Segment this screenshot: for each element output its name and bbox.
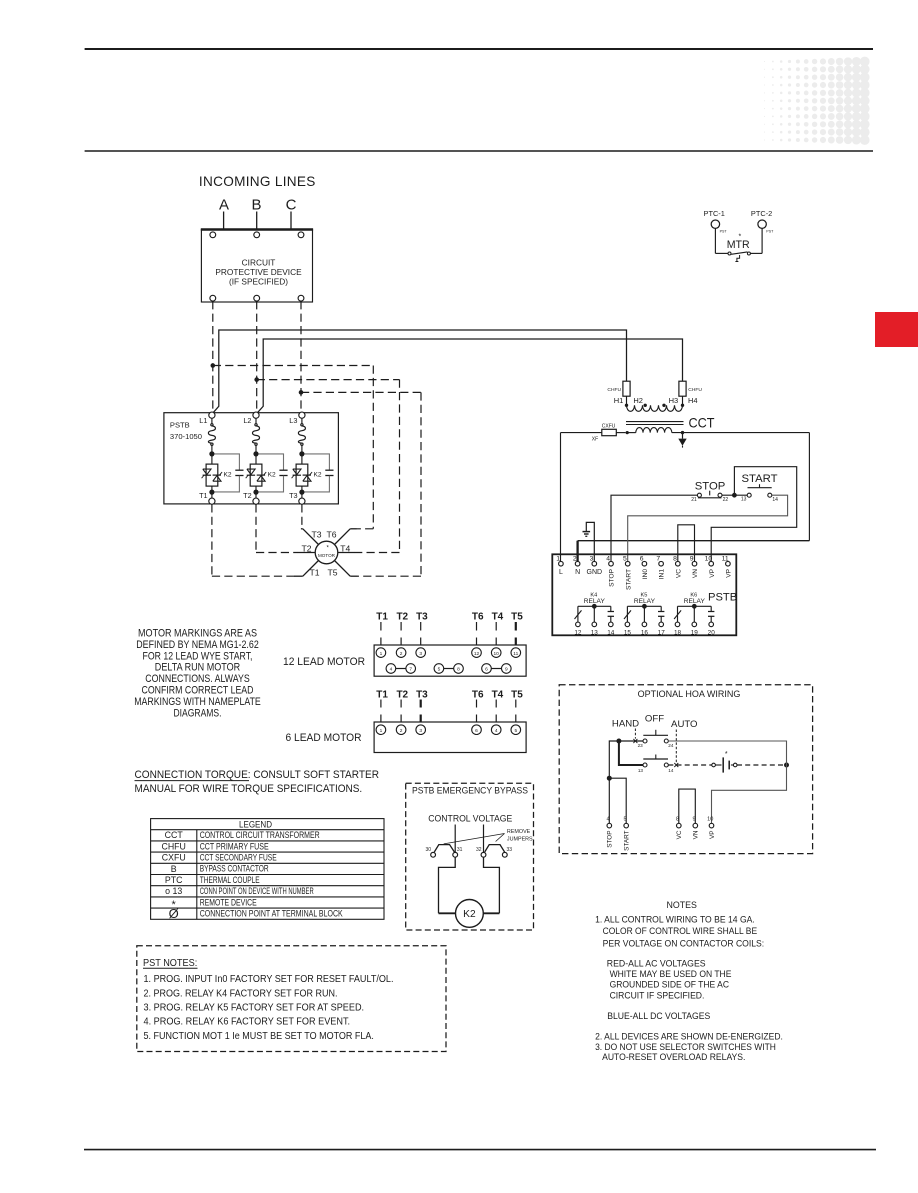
- SCR pair L1: [202, 464, 223, 486]
- svg-text:LEGEND: LEGEND: [239, 820, 272, 831]
- svg-text:STOP: STOP: [607, 831, 614, 848]
- svg-text:4: 4: [606, 555, 610, 562]
- svg-text:H4: H4: [688, 396, 698, 405]
- wire T2 to motor: [255, 504, 257, 552]
- svg-text:VP: VP: [709, 568, 716, 577]
- svg-text:WHITE MAY BE USED ON THE: WHITE MAY BE USED ON THE: [610, 969, 732, 979]
- node L2 junction: [253, 451, 258, 456]
- svg-text:VN: VN: [693, 830, 700, 839]
- svg-text:PER VOLTAGE ON CONTACTOR COILS: PER VOLTAGE ON CONTACTOR COILS:: [603, 938, 765, 948]
- svg-text:10: 10: [705, 555, 713, 562]
- svg-text:20: 20: [708, 629, 716, 636]
- svg-text:2. ALL DEVICES ARE SHOWN DE-EN: 2. ALL DEVICES ARE SHOWN DE-ENERGIZED.: [595, 1032, 783, 1042]
- node HOA right junction: [784, 763, 789, 768]
- svg-text:XF: XF: [592, 437, 598, 443]
- svg-text:T1: T1: [376, 689, 388, 700]
- svg-text:INCOMING LINES: INCOMING LINES: [199, 174, 316, 189]
- svg-text:(IF SPECIFIED): (IF SPECIFIED): [229, 277, 288, 287]
- svg-text:OFF: OFF: [645, 714, 664, 725]
- svg-text:CCT: CCT: [689, 416, 716, 431]
- svg-text:PROTECTIVE DEVICE: PROTECTIVE DEVICE: [215, 267, 302, 277]
- svg-text:12 LEAD MOTOR: 12 LEAD MOTOR: [283, 656, 365, 668]
- svg-text:PST NOTES:: PST NOTES:: [143, 958, 197, 969]
- terminal 6 IN0: [642, 561, 647, 566]
- svg-text:1: 1: [380, 728, 383, 734]
- svg-text:CONN POINT ON DEVICE WITH NUMB: CONN POINT ON DEVICE WITH NUMBER: [200, 886, 314, 896]
- node L3 junction: [299, 451, 304, 456]
- terminal 9 VN: [692, 561, 697, 566]
- svg-text:14: 14: [772, 497, 778, 503]
- svg-text:21: 21: [691, 497, 697, 503]
- thermal couple PTC-1: [704, 209, 728, 253]
- svg-text:31: 31: [457, 847, 463, 853]
- 6 lead motor terminal box: [286, 689, 527, 752]
- svg-text:CCT PRIMARY FUSE: CCT PRIMARY FUSE: [200, 841, 269, 851]
- svg-text:FOR 12 LEAD WYE START,: FOR 12 LEAD WYE START,: [143, 650, 253, 662]
- svg-text:CHFU: CHFU: [688, 387, 702, 393]
- svg-text:8: 8: [673, 555, 677, 562]
- svg-text:13: 13: [638, 768, 644, 773]
- terminal 11 VP: [726, 561, 731, 566]
- svg-text:12: 12: [574, 629, 582, 636]
- svg-text:L1: L1: [199, 416, 207, 425]
- svg-text:DELTA RUN MOTOR: DELTA RUN MOTOR: [155, 662, 240, 674]
- connection torque note: [135, 769, 380, 795]
- selector contact 13-14: [638, 730, 678, 773]
- svg-text:1: 1: [380, 651, 383, 657]
- svg-text:H2: H2: [633, 396, 643, 405]
- svg-text:T5: T5: [511, 611, 523, 622]
- wire phase C dashed drop: [300, 301, 302, 412]
- pushbutton STOP (NC): [691, 481, 728, 503]
- wire phase B dashed drop: [256, 301, 258, 412]
- svg-text:DIAGRAMS.: DIAGRAMS.: [174, 707, 222, 719]
- svg-text:1: 1: [556, 555, 560, 562]
- terminal L3: [299, 412, 305, 418]
- svg-text:7: 7: [656, 555, 660, 562]
- svg-text:6 LEAD MOTOR: 6 LEAD MOTOR: [286, 732, 362, 744]
- wire phase A dashed drop: [212, 301, 214, 412]
- thermal couple PTC-2: [751, 209, 774, 253]
- svg-text:5. FUNCTION MOT 1 Ie MUST BE S: 5. FUNCTION MOT 1 Ie MUST BE SET TO MOTO…: [144, 1031, 374, 1042]
- svg-text:6: 6: [640, 555, 644, 562]
- svg-text:19: 19: [691, 629, 699, 636]
- terminal 3 GND: [592, 561, 597, 566]
- svg-text:H1: H1: [614, 396, 624, 405]
- svg-text:VP: VP: [726, 568, 733, 577]
- contactor coil K2: [439, 857, 500, 927]
- svg-text:K2: K2: [268, 471, 276, 478]
- svg-text:CIRCUIT IF SPECIFIED.: CIRCUIT IF SPECIFIED.: [610, 990, 705, 1000]
- svg-text:11: 11: [513, 651, 518, 657]
- svg-text:CONFIRM CORRECT LEAD: CONFIRM CORRECT LEAD: [142, 685, 254, 697]
- PST notes box: [137, 946, 446, 1052]
- SCR pair L2: [246, 464, 267, 486]
- svg-text:24: 24: [668, 743, 674, 748]
- wire tap A to motor T6: [213, 365, 373, 367]
- terminal 7 IN1: [659, 561, 664, 566]
- svg-text:THERMAL COUPLE: THERMAL COUPLE: [200, 875, 260, 885]
- svg-text:REMOTE DEVICE: REMOTE DEVICE: [200, 897, 257, 907]
- node STOP/START junction: [732, 493, 737, 498]
- SCR pair L3: [292, 464, 313, 486]
- control voltage leads: [454, 825, 456, 853]
- overload/fuse element L2: [255, 418, 257, 423]
- svg-text:COLOR OF CONTROL WIRE SHALL BE: COLOR OF CONTROL WIRE SHALL BE: [603, 926, 758, 936]
- svg-text:6: 6: [485, 667, 488, 673]
- svg-text:T5: T5: [511, 689, 523, 700]
- svg-text:T2: T2: [301, 543, 311, 553]
- svg-text:K2: K2: [314, 471, 322, 478]
- terminal 1 L: [559, 561, 564, 566]
- svg-text:PST: PST: [720, 230, 728, 234]
- svg-text:4. PROG. RELAY K6 FACTORY SET: 4. PROG. RELAY K6 FACTORY SET FOR EVENT.: [144, 1017, 351, 1028]
- overload/fuse element L1: [211, 418, 213, 423]
- svg-text:GROUNDED SIDE OF THE AC: GROUNDED SIDE OF THE AC: [610, 980, 730, 990]
- svg-text:PTC-2: PTC-2: [751, 209, 772, 218]
- pushbutton START (NO): [741, 473, 778, 503]
- svg-text:9: 9: [690, 555, 694, 562]
- fuse CXFU / XF: [561, 423, 636, 442]
- circuit protective device: [201, 230, 313, 303]
- svg-text:BLUE-ALL DC VOLTAGES: BLUE-ALL DC VOLTAGES: [607, 1011, 710, 1021]
- jumper VC-VN: [678, 525, 695, 561]
- svg-text:CCT SECONDARY FUSE: CCT SECONDARY FUSE: [200, 853, 277, 863]
- svg-text:32: 32: [476, 847, 482, 853]
- svg-text:12: 12: [474, 651, 480, 657]
- svg-text:1. ALL CONTROL WIRING TO BE 14: 1. ALL CONTROL WIRING TO BE 14 GA.: [595, 914, 755, 924]
- wire L drop: [560, 433, 562, 562]
- svg-text:CONNECTION POINT AT TERMINAL B: CONNECTION POINT AT TERMINAL BLOCK: [200, 909, 343, 919]
- svg-text:HAND: HAND: [612, 718, 639, 729]
- svg-text:T2: T2: [396, 611, 408, 622]
- svg-text:3: 3: [419, 651, 422, 657]
- svg-text:T2: T2: [396, 689, 408, 700]
- svg-text:10: 10: [707, 816, 713, 822]
- wire lead C: [290, 212, 292, 230]
- svg-text:CXFU: CXFU: [162, 853, 186, 863]
- svg-text:5: 5: [623, 816, 626, 822]
- svg-text:14: 14: [607, 629, 615, 636]
- 12 lead motor terminal box: [283, 611, 526, 676]
- svg-text:B: B: [251, 197, 261, 214]
- relay K6: [674, 592, 715, 636]
- svg-text:T6: T6: [472, 611, 484, 622]
- svg-text:7: 7: [409, 667, 412, 673]
- svg-text:1. PROG. INPUT In0 FACTORY SET: 1. PROG. INPUT In0 FACTORY SET FOR RESET…: [144, 974, 394, 985]
- svg-text:5: 5: [514, 728, 517, 734]
- wire tap C to motor T5: [301, 391, 421, 393]
- terminal T1: [211, 486, 213, 490]
- svg-text:PSTB: PSTB: [170, 420, 190, 429]
- svg-text:3: 3: [419, 728, 422, 734]
- fuse CHFU (right): [679, 381, 702, 396]
- svg-text:L: L: [559, 569, 563, 576]
- wire CCT secondary right to N: [672, 432, 810, 434]
- PSTB control section: [552, 554, 736, 635]
- svg-text:4: 4: [495, 728, 498, 734]
- svg-text:DEFINED BY NEMA MG1-2.62: DEFINED BY NEMA MG1-2.62: [136, 639, 259, 651]
- svg-text:T3: T3: [416, 689, 428, 700]
- svg-text:CONNECTIONS. ALWAYS: CONNECTIONS. ALWAYS: [145, 673, 249, 685]
- svg-text:CONTROL VOLTAGE: CONTROL VOLTAGE: [428, 812, 512, 823]
- wire N drop (bold): [576, 541, 578, 562]
- bypass contactor contact K2 (L1): [215, 454, 244, 492]
- svg-text:T4: T4: [340, 543, 350, 553]
- svg-text:14: 14: [668, 768, 674, 773]
- svg-text:3. PROG. RELAY K5 FACTORY SET: 3. PROG. RELAY K5 FACTORY SET FOR AT SPE…: [144, 1003, 365, 1014]
- svg-text:9: 9: [693, 816, 696, 822]
- svg-text:K2: K2: [463, 909, 476, 920]
- svg-text:T3: T3: [416, 611, 428, 622]
- selector contact 23-24: [633, 729, 673, 748]
- svg-text:IN1: IN1: [659, 569, 666, 580]
- wire junction to VP: [712, 765, 787, 823]
- svg-text:PST: PST: [766, 230, 774, 234]
- svg-text:CCT: CCT: [165, 830, 184, 840]
- svg-text:CIRCUIT: CIRCUIT: [242, 258, 276, 268]
- svg-text:17: 17: [658, 629, 666, 636]
- terminal 5 START (HOA): [624, 823, 629, 828]
- svg-text:RED-ALL AC VOLTAGES: RED-ALL AC VOLTAGES: [607, 958, 706, 968]
- svg-text:2: 2: [400, 728, 403, 734]
- svg-text:4: 4: [607, 816, 610, 822]
- svg-text:N: N: [575, 569, 580, 576]
- remote device (selector auto circuit): [712, 751, 737, 773]
- svg-text:T4: T4: [492, 689, 504, 700]
- svg-text:JUMPERS: JUMPERS: [507, 836, 533, 842]
- svg-text:CONNECTION TORQUE: CONSULT SOF: CONNECTION TORQUE: CONSULT SOFT STARTER: [135, 769, 380, 781]
- wire L1 to CHFU/H1: [214, 330, 627, 412]
- svg-text:PSTB EMERGENCY BYPASS: PSTB EMERGENCY BYPASS: [412, 784, 528, 795]
- terminal 4 STOP (HOA): [607, 823, 612, 828]
- svg-text:IN0: IN0: [642, 569, 649, 580]
- terminal 10 VP (HOA): [709, 823, 714, 828]
- transformer CCT: [614, 396, 715, 433]
- wire T3 to motor: [301, 504, 303, 529]
- wire to STOP/START terminals: [609, 741, 617, 776]
- svg-text:PTC: PTC: [165, 875, 183, 885]
- legend table: [151, 819, 384, 922]
- node phase C tap: [299, 390, 304, 395]
- svg-text:370-1050: 370-1050: [170, 432, 202, 441]
- svg-text:A: A: [219, 197, 229, 214]
- notes text: [595, 900, 783, 1062]
- terminal L1: [209, 412, 215, 418]
- wire lead B: [256, 212, 258, 230]
- svg-text:BYPASS CONTACTOR: BYPASS CONTACTOR: [200, 864, 269, 874]
- svg-text:30: 30: [425, 847, 431, 853]
- wire L2 to CHFU/H4: [258, 339, 683, 412]
- svg-text:Ø: Ø: [169, 906, 179, 921]
- svg-text:23: 23: [638, 743, 644, 748]
- svg-text:4: 4: [390, 667, 393, 673]
- wire HAND branch (bold): [619, 741, 643, 765]
- node HOA supply: [616, 739, 621, 744]
- svg-text:5: 5: [438, 667, 441, 673]
- svg-text:START: START: [624, 830, 631, 850]
- svg-text:*: *: [725, 751, 728, 758]
- svg-text:MANUAL FOR WIRE TORQUE SPECIFI: MANUAL FOR WIRE TORQUE SPECIFICATIONS.: [135, 783, 363, 795]
- svg-text:PTC-1: PTC-1: [704, 209, 725, 218]
- svg-text:START: START: [625, 569, 632, 590]
- wire auto dashed to remote device: [668, 764, 712, 766]
- soft starter PSTB 370-1050 power section: [164, 413, 339, 504]
- svg-text:16: 16: [641, 629, 649, 636]
- svg-text:2. PROG. RELAY K4 FACTORY SET: 2. PROG. RELAY K4 FACTORY SET FOR RUN.: [144, 988, 338, 999]
- svg-text:CHFU: CHFU: [607, 387, 621, 393]
- svg-text:VN: VN: [692, 569, 699, 578]
- svg-text:2: 2: [400, 651, 403, 657]
- svg-text:VC: VC: [675, 569, 682, 578]
- svg-text:AUTO: AUTO: [671, 719, 697, 730]
- wire tap B to motor T4: [257, 379, 400, 381]
- svg-text:H3: H3: [669, 396, 679, 405]
- ground electrode: [583, 522, 595, 561]
- svg-text:T3: T3: [289, 491, 298, 500]
- svg-text:13: 13: [741, 496, 747, 502]
- svg-text:13: 13: [591, 629, 599, 636]
- svg-text:9: 9: [505, 667, 508, 673]
- relay K5: [624, 592, 665, 636]
- ground at CCT secondary: [678, 431, 686, 448]
- terminal 2 N: [575, 561, 580, 566]
- svg-text:AUTO-RESET OVERLOAD RELAYS.: AUTO-RESET OVERLOAD RELAYS.: [602, 1052, 745, 1062]
- svg-text:T6: T6: [326, 530, 336, 540]
- overload/fuse element L3: [301, 418, 303, 423]
- svg-text:T6: T6: [472, 689, 484, 700]
- svg-text:10: 10: [494, 651, 500, 657]
- svg-text:3: 3: [590, 555, 594, 562]
- optional HOA wiring box: [559, 685, 812, 854]
- svg-text:GND: GND: [587, 569, 603, 576]
- svg-text:33: 33: [507, 847, 513, 853]
- svg-text:K2: K2: [224, 471, 232, 478]
- wire node to contact 23: [621, 740, 643, 742]
- svg-text:8: 8: [457, 667, 460, 673]
- wire 14 to terminal5 START: [628, 495, 788, 561]
- svg-text:VP: VP: [709, 831, 716, 840]
- jumper 30-31: [425, 845, 462, 858]
- terminal 5 START: [625, 561, 630, 566]
- motor markings note text: [134, 628, 261, 720]
- svg-text:3. DO NOT USE SELECTOR SWITCHE: 3. DO NOT USE SELECTOR SWITCHES WITH: [595, 1042, 776, 1052]
- terminal 8 VC (HOA): [677, 823, 682, 828]
- svg-text:L3: L3: [289, 416, 297, 425]
- terminal 8 VC: [676, 561, 681, 566]
- svg-text:6: 6: [475, 728, 478, 734]
- svg-text:MTR: MTR: [727, 239, 750, 251]
- terminal L2: [253, 412, 259, 418]
- svg-text:START: START: [742, 473, 778, 485]
- svg-text:8: 8: [676, 816, 679, 822]
- svg-text:OPTIONAL HOA WIRING: OPTIONAL HOA WIRING: [638, 689, 741, 699]
- bypass contactor contact K2 (L3): [305, 454, 334, 492]
- terminal T2: [255, 486, 257, 490]
- svg-text:B: B: [171, 864, 177, 874]
- svg-text:STOP: STOP: [609, 568, 616, 586]
- jumper VC-VN (HOA): [679, 789, 696, 823]
- svg-text:11: 11: [722, 555, 729, 562]
- svg-text:C: C: [286, 197, 297, 214]
- node phase A tap: [211, 363, 216, 368]
- red chapter tab: [875, 312, 918, 347]
- wire junction to contact 24: [668, 741, 786, 765]
- svg-text:CHFU: CHFU: [161, 841, 185, 851]
- svg-text:MARKINGS WITH NAMEPLATE: MARKINGS WITH NAMEPLATE: [134, 696, 261, 708]
- svg-text:T1: T1: [199, 491, 208, 500]
- relay K4: [574, 592, 614, 636]
- MTR thermal switch: [715, 234, 762, 262]
- jumper 32-33: [476, 845, 512, 858]
- svg-text:T3: T3: [311, 530, 321, 540]
- svg-text:T4: T4: [492, 611, 504, 622]
- remove jumpers note: [444, 829, 533, 844]
- svg-text:T2: T2: [243, 491, 252, 500]
- svg-text:MOTOR: MOTOR: [318, 553, 336, 558]
- wire VP to node 13: [711, 467, 797, 561]
- svg-text:VC: VC: [676, 830, 683, 839]
- svg-text:MOTOR MARKINGS ARE AS: MOTOR MARKINGS ARE AS: [138, 628, 257, 640]
- svg-text:CXFU: CXFU: [602, 423, 616, 429]
- wire T1 to motor: [211, 504, 213, 576]
- svg-text:T1: T1: [376, 611, 388, 622]
- terminal 10 VP: [709, 561, 714, 566]
- svg-text:T1: T1: [309, 568, 319, 578]
- svg-text:L2: L2: [243, 416, 251, 425]
- svg-text:REMOVE: REMOVE: [507, 829, 531, 835]
- svg-text:18: 18: [674, 629, 682, 636]
- fuse CHFU (left): [607, 381, 630, 396]
- motor M: [294, 529, 358, 578]
- terminal T3: [301, 486, 303, 490]
- wire lead A: [223, 212, 225, 230]
- svg-text:PSTB: PSTB: [708, 592, 737, 604]
- wire terminal4 to STOP: [611, 495, 697, 561]
- wire 22 to node 13: [722, 494, 747, 496]
- terminal 4 STOP: [609, 561, 614, 566]
- svg-text:22: 22: [723, 497, 729, 503]
- svg-text:T5: T5: [327, 568, 337, 578]
- PSTB emergency bypass box: [406, 783, 534, 930]
- bypass contactor contact K2 (L2): [259, 454, 288, 492]
- node phase B tap: [254, 377, 259, 382]
- terminal 9 VN (HOA): [693, 823, 698, 828]
- svg-text:o 13: o 13: [165, 886, 182, 896]
- svg-text:NOTES: NOTES: [667, 900, 697, 910]
- svg-text:CONTROL CIRCUIT TRANSFORMER: CONTROL CIRCUIT TRANSFORMER: [200, 830, 320, 840]
- svg-text:5: 5: [623, 555, 627, 562]
- svg-text:2: 2: [573, 555, 577, 562]
- svg-text:15: 15: [624, 629, 632, 636]
- node L1 junction: [209, 451, 214, 456]
